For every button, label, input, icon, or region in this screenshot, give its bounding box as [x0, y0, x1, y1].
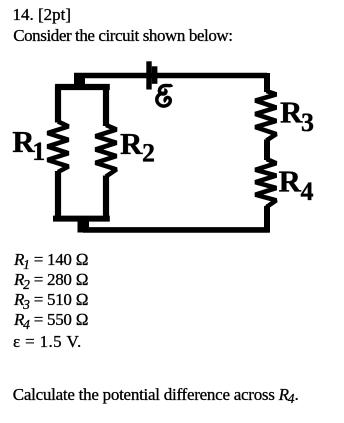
svg-text:R: R [279, 164, 302, 199]
svg-text:R: R [120, 126, 143, 161]
svg-text:3: 3 [301, 108, 314, 137]
svg-text:2: 2 [142, 138, 155, 167]
svg-text:R: R [280, 94, 303, 129]
svg-text:4: 4 [301, 177, 314, 206]
svg-text:1: 1 [32, 137, 45, 166]
